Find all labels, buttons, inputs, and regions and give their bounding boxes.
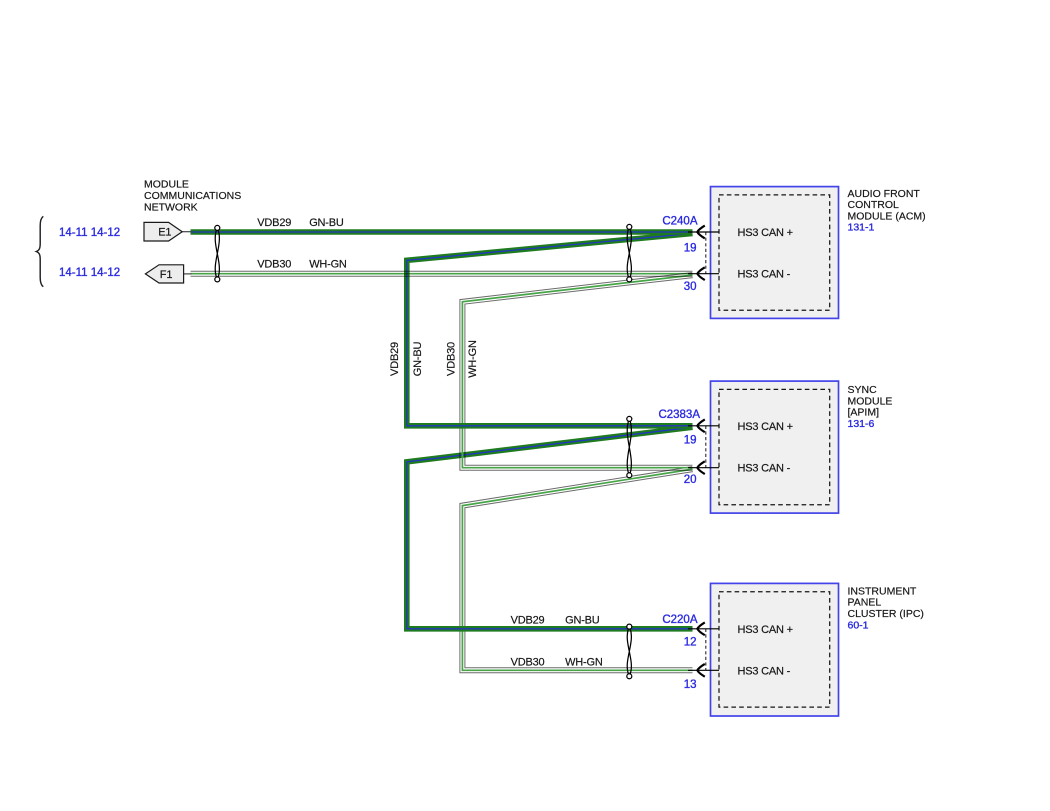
svg-text:HS3 CAN +: HS3 CAN +: [738, 421, 793, 433]
svg-text:C240A: C240A: [662, 216, 697, 228]
svg-text:VDB30: VDB30: [257, 259, 291, 271]
pin 30 ACM lead: [688, 273, 719, 275]
svg-text:20: 20: [684, 474, 697, 486]
svg-text:HS3 CAN +: HS3 CAN +: [738, 624, 793, 636]
svg-text:CONTROL: CONTROL: [848, 199, 899, 211]
svg-text:C2383A: C2383A: [658, 409, 700, 421]
svg-text:GN-BU: GN-BU: [565, 614, 600, 626]
wire VDB29 GN-BU segment SYNC pin19 to IPC pin12: [407, 427, 693, 629]
module U3 label: [848, 585, 924, 631]
connector C240A dashed link: [705, 232, 707, 274]
brace left: [36, 216, 43, 286]
svg-text:[APIM]: [APIM]: [848, 407, 880, 419]
svg-text:C220A: C220A: [662, 614, 697, 626]
svg-text:MODULE (ACM): MODULE (ACM): [848, 210, 926, 222]
wire VDB29 GN-BU segment E1 to ACM pin19: [191, 229, 693, 235]
wire VDB30 WH-GN segment F1 to ACM pin30: [191, 271, 693, 276]
svg-text:14-11 14-12: 14-11 14-12: [59, 227, 120, 239]
svg-text:CLUSTER (IPC): CLUSTER (IPC): [848, 608, 924, 620]
pin 12 IPC arrow: [697, 622, 705, 635]
module U1 label: [848, 188, 926, 234]
svg-text:SYNC: SYNC: [848, 384, 878, 396]
svg-text:GN-BU: GN-BU: [412, 342, 424, 377]
svg-text:NETWORK: NETWORK: [144, 202, 198, 214]
svg-text:30: 30: [684, 281, 697, 293]
twisted pair symbol at SYNC: [627, 416, 632, 477]
wire VDB30 WH-GN segment SYNC pin20 to IPC pin13: [460, 467, 693, 673]
connector C220A dashed link: [705, 629, 707, 671]
twisted pair symbol at IPC: [627, 624, 632, 679]
pin 19 SYNC lead: [688, 425, 719, 427]
svg-text:19: 19: [684, 242, 697, 254]
svg-text:WH-GN: WH-GN: [565, 657, 603, 669]
svg-text:131-6: 131-6: [848, 418, 875, 430]
svg-text:131-1: 131-1: [848, 222, 875, 234]
svg-text:19: 19: [684, 434, 697, 446]
svg-text:HS3 CAN -: HS3 CAN -: [738, 665, 791, 677]
module U2 label: [848, 384, 893, 430]
pin 13 IPC lead: [688, 669, 719, 671]
svg-text:F1: F1: [160, 269, 173, 281]
svg-text:13: 13: [684, 679, 697, 691]
svg-text:HS3 CAN +: HS3 CAN +: [738, 227, 793, 239]
svg-text:MODULE: MODULE: [848, 395, 893, 407]
svg-text:WH-GN: WH-GN: [467, 340, 479, 378]
pin 20 SYNC arrow: [697, 461, 705, 474]
svg-text:PANEL: PANEL: [848, 597, 882, 609]
connector F1: [145, 265, 191, 283]
connector E1: [144, 222, 192, 241]
svg-text:HS3 CAN -: HS3 CAN -: [738, 269, 791, 281]
node label MODULE COMMUNICATIONS NETWORK: [144, 178, 241, 213]
pin 20 SYNC lead: [688, 467, 719, 469]
twisted pair symbol at ACM: [627, 224, 632, 282]
svg-text:VDB30: VDB30: [446, 342, 458, 376]
pin 19 ACM lead: [688, 231, 719, 233]
svg-text:E1: E1: [158, 227, 171, 239]
svg-text:MODULE: MODULE: [144, 178, 189, 190]
svg-text:GN-BU: GN-BU: [309, 217, 344, 229]
module U3 Instrument Panel Cluster (IPC) box: [711, 583, 839, 716]
wire VDB30 WH-GN segment ACM pin30 to SYNC pin20: [460, 273, 693, 471]
svg-text:VDB29: VDB29: [389, 342, 401, 376]
pin 19 ACM arrow: [697, 226, 705, 239]
pin 30 ACM arrow: [697, 267, 705, 280]
svg-text:VDB29: VDB29: [511, 614, 545, 626]
svg-text:WH-GN: WH-GN: [309, 259, 347, 271]
connector C2383A dashed link: [705, 426, 707, 468]
svg-text:14-11 14-12: 14-11 14-12: [59, 267, 120, 279]
module U2 SYNC Module APIM box: [711, 381, 839, 513]
svg-text:INSTRUMENT: INSTRUMENT: [848, 585, 917, 597]
svg-text:AUDIO FRONT: AUDIO FRONT: [848, 188, 921, 200]
wire VDB29 GN-BU segment ACM pin19 to SYNC pin19: [407, 233, 693, 425]
pin 13 IPC arrow: [697, 664, 705, 677]
svg-text:60-1: 60-1: [848, 619, 869, 631]
svg-text:HS3 CAN -: HS3 CAN -: [738, 463, 791, 475]
twisted pair symbol at E1/F1: [215, 225, 220, 282]
svg-text:VDB30: VDB30: [511, 657, 545, 669]
svg-text:VDB29: VDB29: [257, 217, 291, 229]
module U1 Audio Front Control Module (ACM) box: [711, 187, 839, 319]
svg-text:COMMUNICATIONS: COMMUNICATIONS: [144, 190, 241, 202]
svg-text:12: 12: [684, 636, 697, 648]
pin 12 IPC lead: [688, 628, 719, 630]
pin 19 SYNC arrow: [697, 419, 705, 432]
